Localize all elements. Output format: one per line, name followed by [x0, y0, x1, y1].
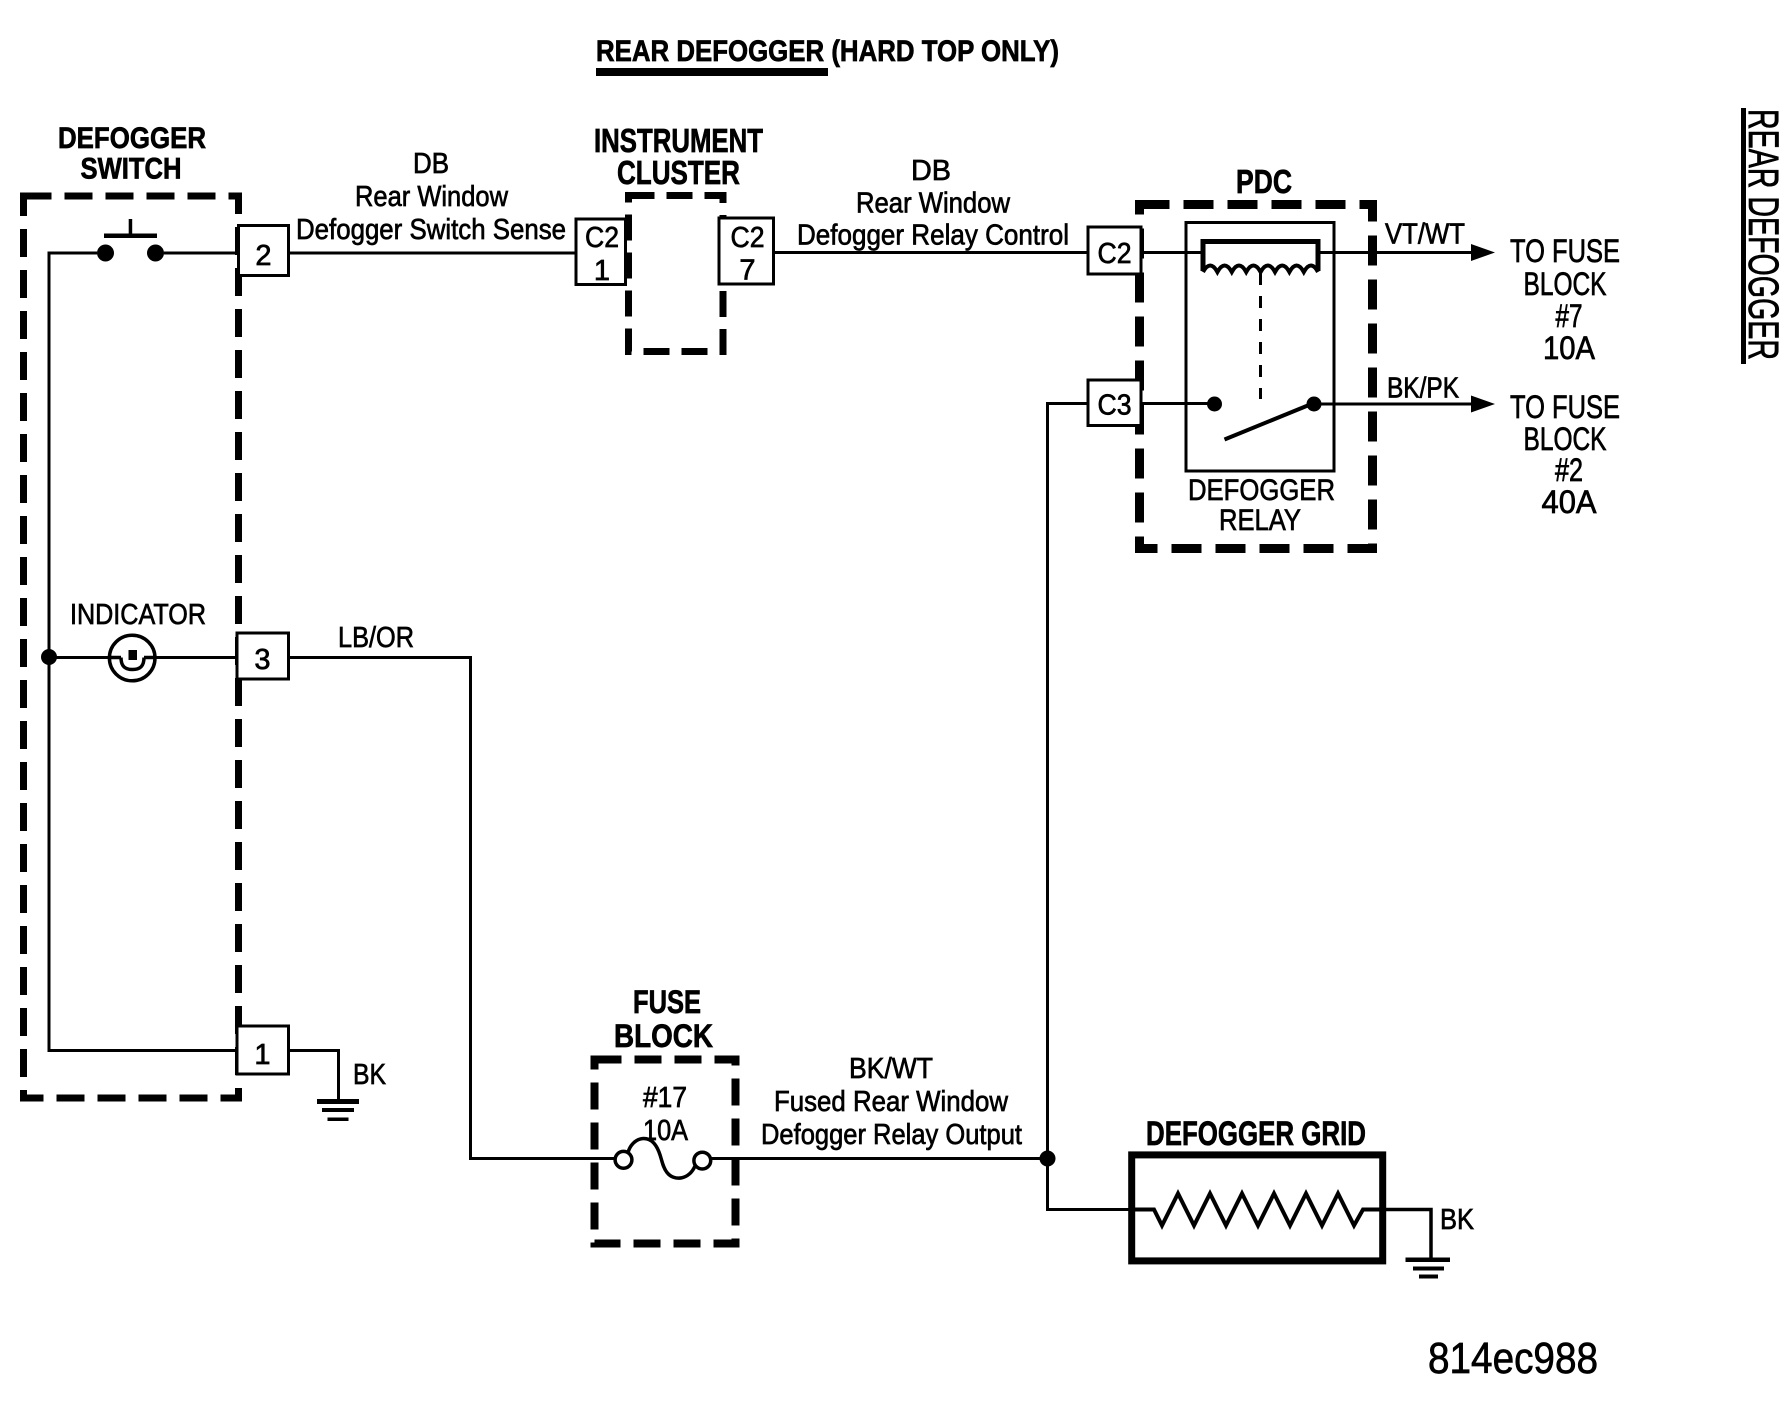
svg-text:LB/OR: LB/OR	[338, 622, 414, 654]
svg-text:BK/PK: BK/PK	[1387, 373, 1460, 405]
svg-text:1: 1	[254, 1039, 270, 1071]
connector C3 (PDC)	[1088, 380, 1141, 426]
wire: grid to ground	[1383, 1210, 1431, 1258]
side caption REAR DEFOGGER (rotated)	[1739, 109, 1787, 360]
wire: pin 1 to ground	[289, 1051, 339, 1100]
svg-text:BLOCK: BLOCK	[1524, 266, 1607, 302]
svg-text:3: 3	[254, 644, 270, 676]
pin 1	[237, 1026, 289, 1074]
title underline	[596, 68, 828, 76]
wire: lamp to pin 3	[155, 656, 237, 659]
connector C2 pin 1	[576, 219, 626, 285]
svg-text:REAR DEFOGGER (HARD TOP ONLY): REAR DEFOGGER (HARD TOP ONLY)	[596, 35, 1059, 68]
svg-text:BLOCK: BLOCK	[614, 1018, 713, 1054]
wire: junction down to defogger grid	[1048, 1159, 1136, 1210]
fuse block dashed box	[595, 1060, 736, 1244]
pin 3	[237, 633, 289, 679]
svg-text:#2: #2	[1555, 452, 1583, 488]
relay coil	[1203, 242, 1318, 272]
svg-text:2: 2	[255, 240, 271, 272]
svg-text:TO FUSE: TO FUSE	[1510, 389, 1620, 425]
svg-text:CLUSTER: CLUSTER	[617, 154, 740, 191]
instrument cluster dashed box	[629, 196, 724, 352]
wire: pin 3 to fuse block (LB/OR)	[289, 658, 616, 1159]
svg-text:7: 7	[739, 255, 755, 287]
svg-text:BK: BK	[1440, 1204, 1475, 1236]
junction node	[1040, 1151, 1056, 1167]
svg-text:Fused Rear Window: Fused Rear Window	[774, 1086, 1009, 1118]
PDC dashed box	[1140, 205, 1373, 549]
svg-text:C3: C3	[1098, 390, 1132, 422]
svg-text:TO FUSE: TO FUSE	[1510, 233, 1620, 269]
svg-text:Rear Window: Rear Window	[856, 188, 1011, 220]
svg-text:Defogger Relay Control: Defogger Relay Control	[797, 220, 1069, 252]
svg-text:VT/WT: VT/WT	[1385, 219, 1465, 251]
wire: junction up to PDC C3	[1048, 404, 1089, 1159]
connector C2 pin 7	[719, 218, 774, 284]
svg-text:DEFOGGER: DEFOGGER	[1188, 474, 1335, 507]
svg-text:C2: C2	[731, 222, 765, 254]
svg-text:1: 1	[594, 255, 610, 287]
wire: fuse to junction (BK/WT)	[711, 1157, 1048, 1160]
relay actuator dashed line	[1259, 273, 1262, 399]
grid resistor element	[1135, 1194, 1383, 1226]
svg-text:PDC: PDC	[1236, 163, 1292, 200]
svg-text:Defogger Relay Output: Defogger Relay Output	[761, 1119, 1022, 1151]
defogger grid box	[1132, 1155, 1383, 1261]
ground (grid)	[1406, 1258, 1451, 1279]
arrowhead BK/PK	[1471, 396, 1495, 413]
wire: coil to fuse block 7 (VT/WT)	[1318, 251, 1472, 254]
svg-text:C2: C2	[1098, 238, 1132, 270]
wire: switch to pin 2	[164, 252, 239, 255]
relay contacts	[1207, 397, 1222, 412]
connector C2 (PDC)	[1088, 227, 1141, 274]
indicator lamp	[109, 635, 155, 681]
wire: pin 2 to instrument cluster C2-1	[289, 252, 578, 255]
relay contact arm	[1225, 405, 1310, 440]
wire: switch to pin1 (left branch)	[49, 253, 237, 1051]
svg-text:10A: 10A	[643, 1115, 689, 1147]
ground (switch)	[317, 1099, 359, 1121]
svg-text:#17: #17	[643, 1082, 687, 1114]
svg-text:INDICATOR: INDICATOR	[70, 599, 206, 631]
side caption underline	[1741, 108, 1746, 364]
wire: C2 to relay coil	[1141, 251, 1203, 254]
wire: relay contact to fuse block 2 (BK/PK)	[1321, 403, 1472, 406]
wire: C3 into relay	[1141, 402, 1210, 405]
svg-text:C2: C2	[585, 222, 619, 254]
svg-text:DEFOGGER: DEFOGGER	[58, 122, 206, 155]
svg-text:BK: BK	[353, 1059, 387, 1091]
defogger switch dashed box	[24, 196, 239, 1098]
svg-text:Defogger Switch Sense: Defogger Switch Sense	[296, 214, 566, 246]
svg-text:#7: #7	[1556, 298, 1583, 334]
svg-text:814ec988: 814ec988	[1428, 1334, 1598, 1383]
node junction on left branch	[41, 649, 57, 665]
fuse F17 symbol	[615, 1138, 711, 1178]
svg-text:SWITCH: SWITCH	[81, 153, 182, 186]
svg-text:Rear Window: Rear Window	[355, 181, 509, 213]
svg-text:40A: 40A	[1542, 484, 1598, 520]
svg-text:REAR DEFOGGER: REAR DEFOGGER	[1739, 109, 1787, 360]
svg-text:RELAY: RELAY	[1219, 504, 1301, 537]
wire: junction to indicator lamp	[49, 656, 110, 659]
pin 2	[239, 226, 289, 276]
defogger relay solid box	[1186, 223, 1334, 472]
svg-text:DB: DB	[413, 148, 449, 180]
svg-text:BK/WT: BK/WT	[849, 1053, 933, 1085]
svg-text:10A: 10A	[1543, 330, 1596, 366]
svg-text:DB: DB	[911, 155, 951, 187]
svg-text:DEFOGGER GRID: DEFOGGER GRID	[1146, 1115, 1366, 1153]
wire: cluster C2-7 to PDC C2	[774, 251, 1089, 254]
arrowhead VT/WT	[1471, 244, 1495, 261]
switch contact symbol	[104, 234, 157, 239]
svg-text:FUSE: FUSE	[633, 984, 701, 1020]
